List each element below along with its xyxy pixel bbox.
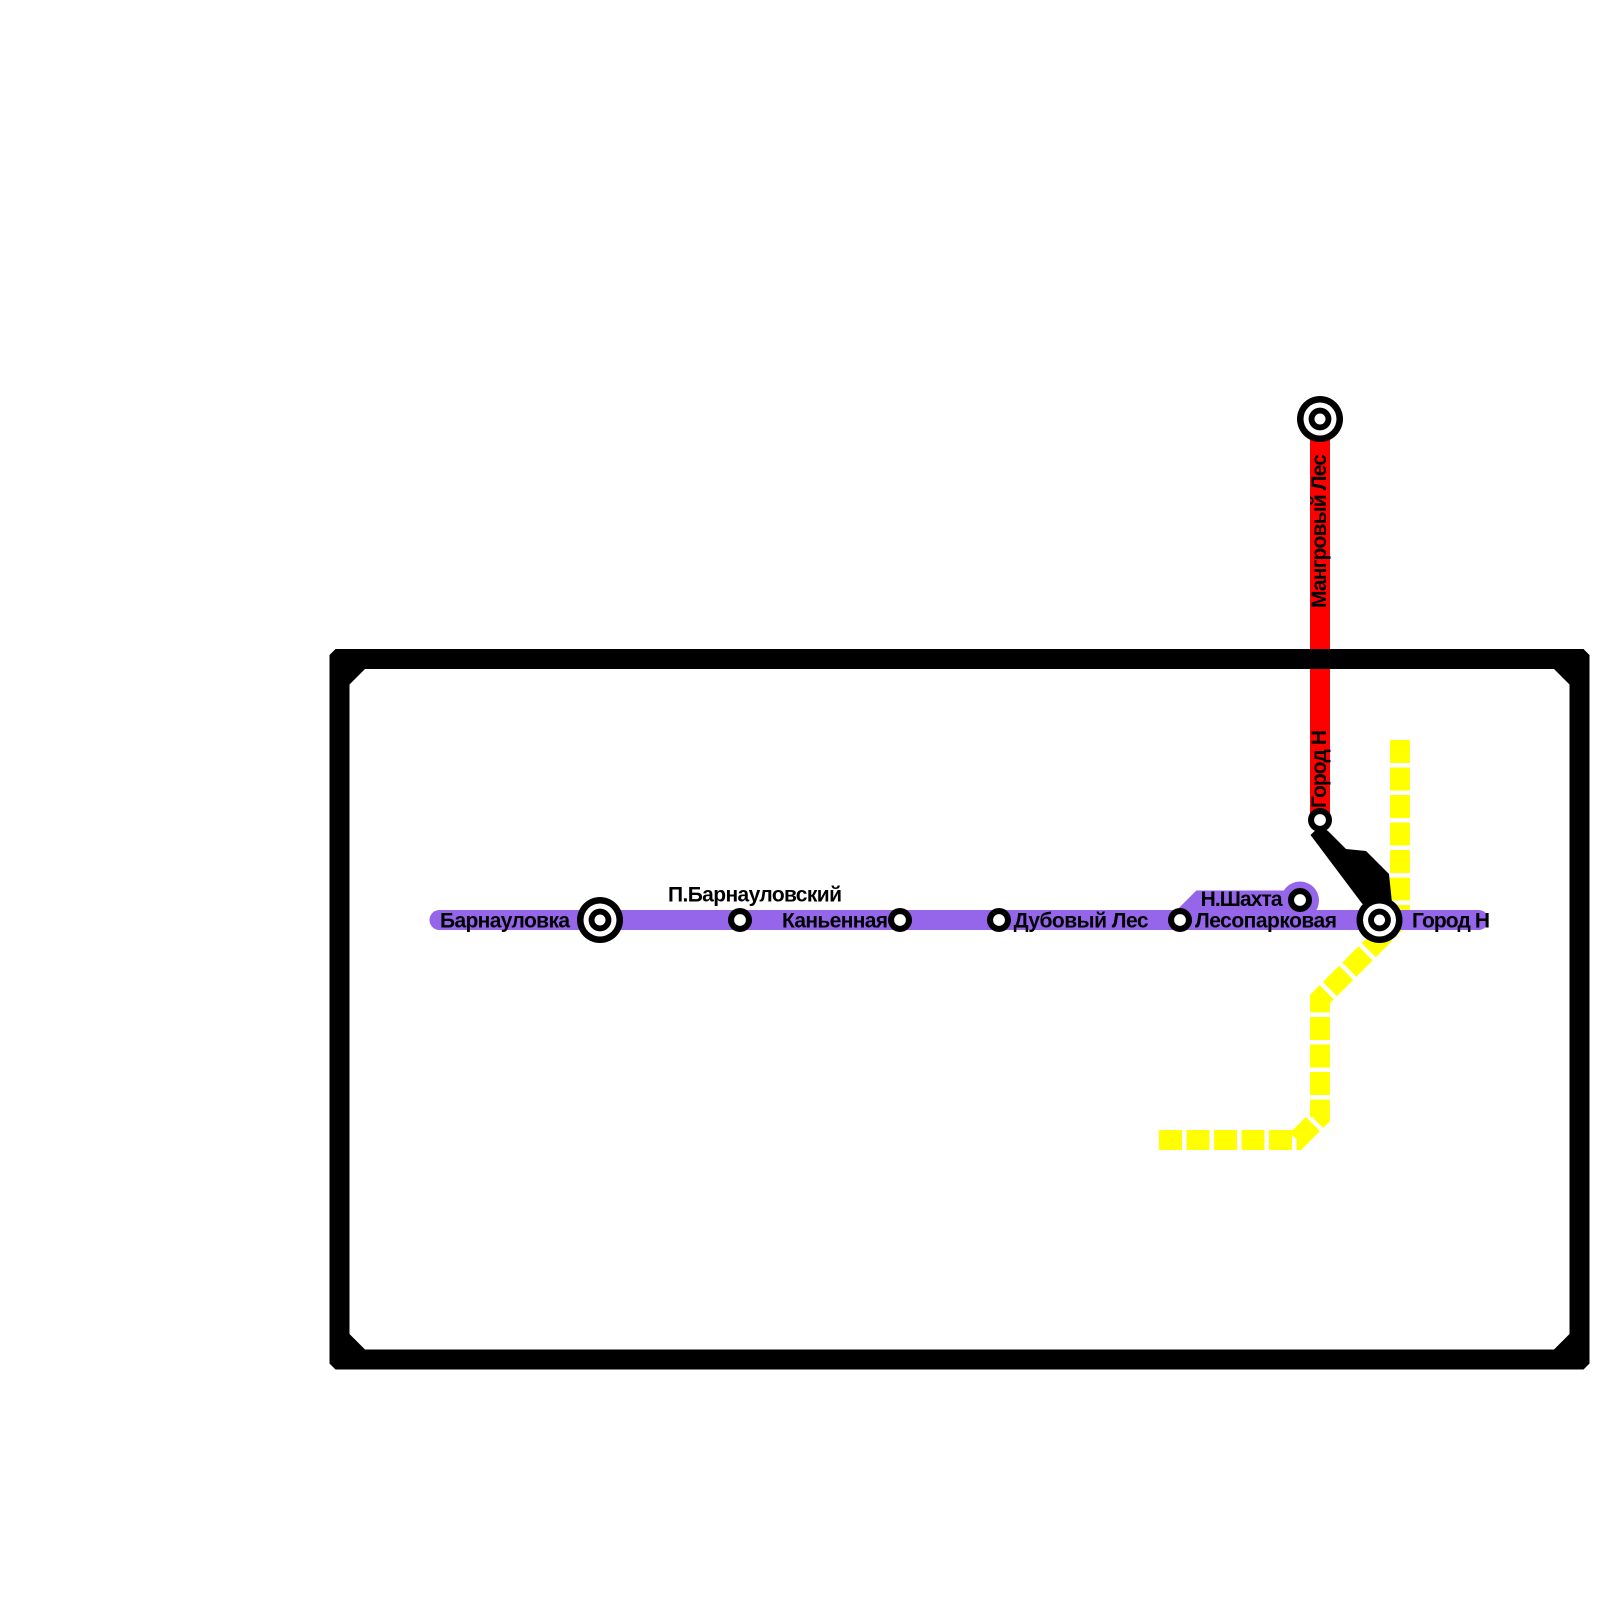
svg-text:Город Н: Город Н	[1412, 910, 1490, 933]
svg-text:Н.Шахта: Н.Шахта	[1201, 888, 1283, 911]
svg-text:П.Барнауловский: П.Барнауловский	[668, 884, 842, 907]
svg-text:Мангровый Лес: Мангровый Лес	[1308, 454, 1331, 608]
svg-text:Каньенная: Каньенная	[782, 910, 888, 933]
svg-text:Барнауловка: Барнауловка	[440, 910, 570, 933]
svg-text:Лесопарковая: Лесопарковая	[1195, 910, 1337, 933]
svg-text:Город Н: Город Н	[1308, 730, 1331, 808]
svg-text:Дубовый Лес: Дубовый Лес	[1014, 910, 1149, 933]
